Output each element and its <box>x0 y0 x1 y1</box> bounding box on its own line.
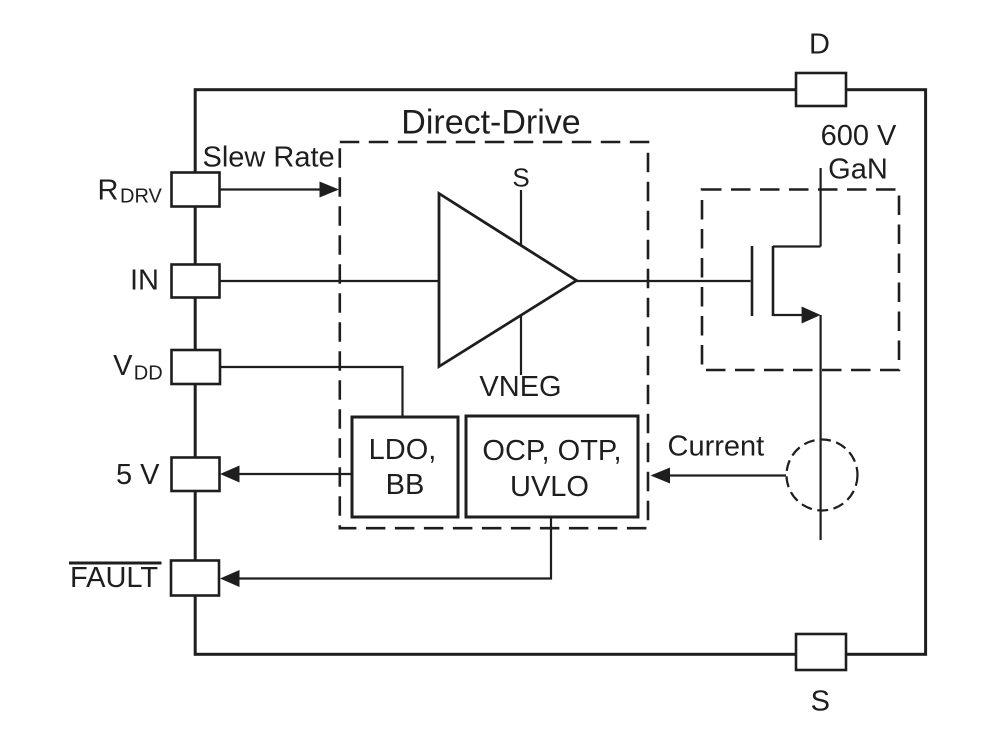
svg-text:S: S <box>512 163 529 193</box>
svg-text:Slew Rate: Slew Rate <box>203 142 335 174</box>
svg-text:600 V: 600 V <box>821 120 897 152</box>
svg-text:DRV: DRV <box>120 186 163 208</box>
svg-text:D: D <box>809 29 830 61</box>
svg-text:GaN: GaN <box>828 154 888 186</box>
svg-text:OCP, OTP,: OCP, OTP, <box>482 435 621 467</box>
svg-text:IN: IN <box>130 265 159 297</box>
svg-text:LDO,: LDO, <box>369 434 437 466</box>
svg-text:V: V <box>113 350 133 382</box>
svg-text:Current: Current <box>668 431 765 463</box>
svg-text:DD: DD <box>134 363 163 385</box>
svg-text:BB: BB <box>386 469 425 501</box>
svg-text:5 V: 5 V <box>116 459 160 491</box>
svg-text:VNEG: VNEG <box>479 371 561 403</box>
svg-text:S: S <box>811 686 830 718</box>
svg-text:UVLO: UVLO <box>510 471 589 503</box>
svg-text:FAULT: FAULT <box>70 562 158 594</box>
svg-text:Direct-Drive: Direct-Drive <box>401 104 580 142</box>
svg-text:R: R <box>98 175 119 207</box>
